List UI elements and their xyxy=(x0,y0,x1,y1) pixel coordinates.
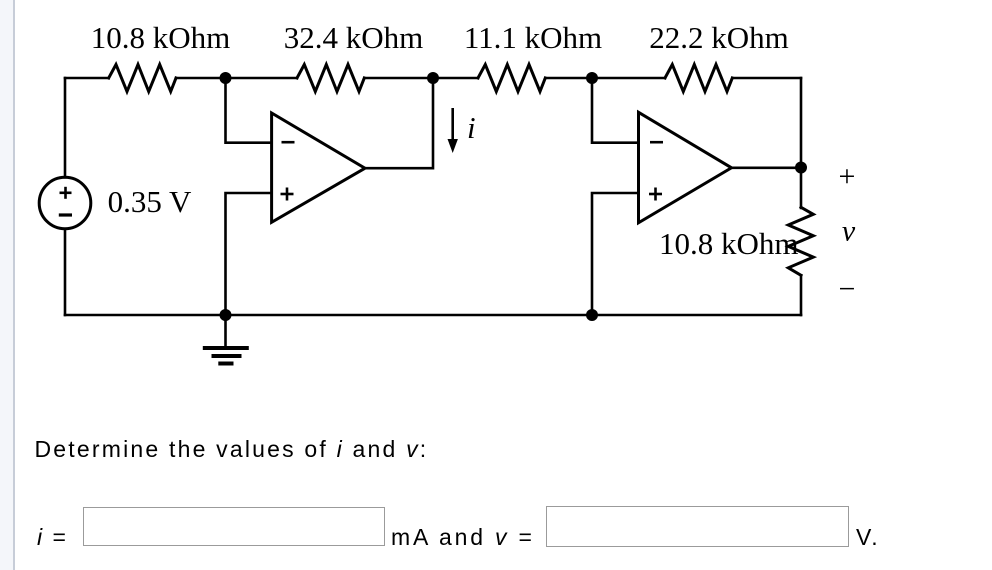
wire op-amp U2 non-inverting input to bottom node D xyxy=(592,193,639,315)
op-amp U1 plus pin label xyxy=(281,193,294,196)
voltage source V1 xyxy=(39,177,91,229)
label V. xyxy=(856,524,880,551)
wire right branch top xyxy=(800,78,803,208)
svg-text:22.2 kOhm: 22.2 kOhm xyxy=(649,20,789,55)
question text xyxy=(35,436,429,463)
wire node A to op-amp U1 inverting input xyxy=(226,78,272,143)
svg-text:10.8 kOhm: 10.8 kOhm xyxy=(659,226,799,261)
wire R1 to node A xyxy=(176,77,297,80)
resistor R1 10.8 kOhm xyxy=(109,65,176,92)
input box for i xyxy=(83,507,385,546)
node D junction dot xyxy=(586,309,598,321)
resistor R4 22.2 kOhm xyxy=(665,65,732,92)
wire op-amp U1 non-inverting input to ground node xyxy=(226,193,272,315)
svg-text:v: v xyxy=(842,215,856,248)
op-amp U1 xyxy=(272,113,365,222)
svg-text:i: i xyxy=(467,110,476,145)
current arrow i xyxy=(451,108,454,140)
wire left branch bottom xyxy=(64,229,67,315)
voltage source V1 minus polarity xyxy=(59,213,72,216)
node C junction dot xyxy=(586,72,598,84)
wire node C to op-amp U2 inverting input xyxy=(592,78,639,143)
wire right branch bottom xyxy=(800,275,803,315)
wire bottom xyxy=(65,314,801,317)
ground xyxy=(224,315,227,348)
wire top-left corner to R1 xyxy=(65,77,109,80)
svg-text:−: − xyxy=(839,273,856,306)
node B junction dot xyxy=(427,72,439,84)
wire R4 to top-right corner xyxy=(732,77,801,80)
op-amp U2 plus pin label xyxy=(649,193,662,196)
resistor R5 10.8 kOhm (vertical) xyxy=(788,207,813,275)
resistor R3 11.1 kOhm xyxy=(478,65,545,92)
resistor R2 32.4 kOhm xyxy=(297,65,364,92)
voltage source V1 plus polarity xyxy=(60,192,72,195)
svg-text:11.1 kOhm: 11.1 kOhm xyxy=(464,20,602,55)
ground node junction dot xyxy=(220,309,232,321)
input box for v xyxy=(546,506,849,547)
op-amp U2 xyxy=(639,112,732,223)
node A junction dot xyxy=(220,72,232,84)
svg-text:32.4 kOhm: 32.4 kOhm xyxy=(284,20,424,55)
label i = xyxy=(37,524,68,551)
label mA and v = xyxy=(391,524,535,551)
svg-text:10.8 kOhm: 10.8 kOhm xyxy=(91,20,231,55)
op-amp U2 minus pin label xyxy=(650,141,663,144)
wire R2 to node B xyxy=(364,77,478,80)
wire op-amp U1 output to node B xyxy=(365,78,433,168)
svg-text:0.35 V: 0.35 V xyxy=(108,184,192,219)
wire left branch top (source to top wire) xyxy=(64,78,67,177)
wire op-amp U2 output to node E xyxy=(732,167,802,170)
wire R3 to node C xyxy=(545,77,665,80)
left stripe xyxy=(0,0,13,570)
node E junction dot xyxy=(795,162,807,174)
op-amp U1 minus pin label xyxy=(282,141,295,144)
svg-text:+: + xyxy=(839,160,856,193)
